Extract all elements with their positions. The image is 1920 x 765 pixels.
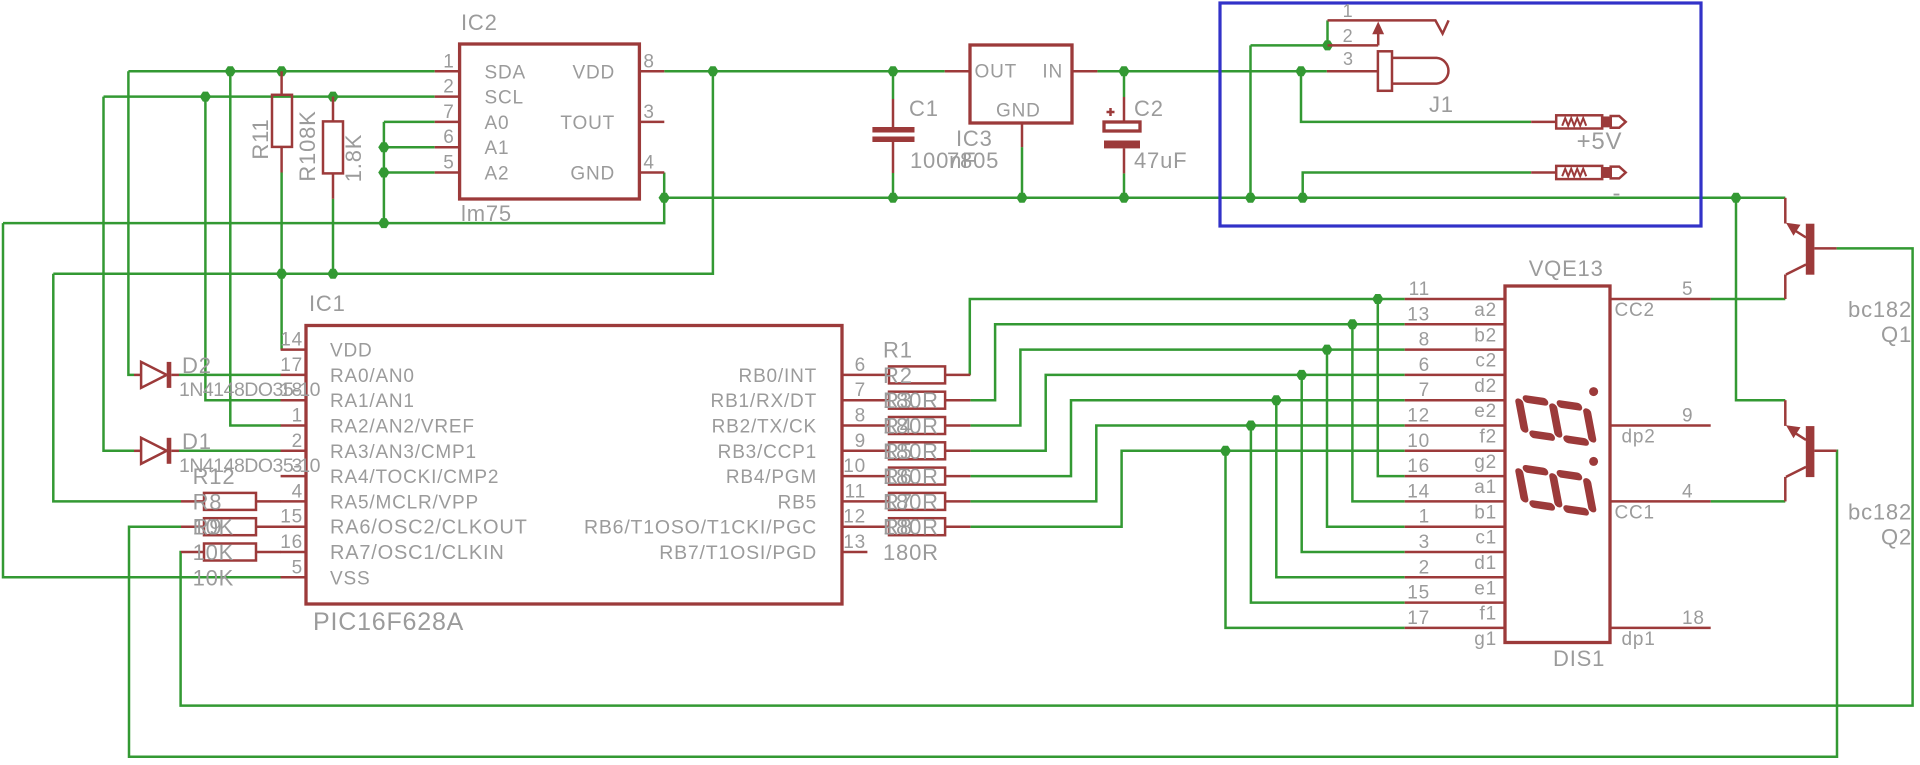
svg-text:RA4/TOCKI/CMP2: RA4/TOCKI/CMP2 bbox=[330, 467, 499, 488]
svg-text:4: 4 bbox=[292, 481, 303, 502]
svg-text:3: 3 bbox=[643, 102, 654, 123]
svg-text:VDD: VDD bbox=[572, 62, 615, 83]
IC1 pin 13 stub bbox=[842, 551, 867, 554]
junction C2 top bbox=[1118, 66, 1129, 76]
IC2 pin 1 stub bbox=[435, 70, 460, 73]
svg-text:IC1: IC1 bbox=[309, 291, 346, 316]
IC1 pin 6 stub bbox=[842, 374, 889, 377]
svg-text:180R: 180R bbox=[883, 414, 939, 439]
svg-text:14: 14 bbox=[280, 330, 303, 351]
IC3 OUT pin stub bbox=[945, 70, 970, 73]
DIS1 pin 1 stub bbox=[1405, 525, 1505, 528]
wire DIS1 CC2 to Q1 collector bbox=[1711, 298, 1786, 301]
wire segment e branch to digit1 pin bbox=[1276, 400, 1404, 577]
svg-text:RA3/AN3/CMP1: RA3/AN3/CMP1 bbox=[330, 442, 477, 463]
connector J1 pin 3 with LED lamp bbox=[1327, 70, 1378, 73]
svg-text:c1: c1 bbox=[1475, 528, 1497, 549]
junction C1 bottom bbox=[887, 193, 898, 203]
junction segment b split bbox=[1347, 319, 1358, 329]
svg-text:d2: d2 bbox=[1474, 376, 1497, 397]
svg-text:2: 2 bbox=[1343, 26, 1354, 46]
svg-text:180R: 180R bbox=[883, 439, 939, 464]
svg-text:bc182: bc182 bbox=[1848, 500, 1912, 525]
svg-text:3: 3 bbox=[1343, 49, 1354, 69]
svg-text:b2: b2 bbox=[1474, 325, 1497, 346]
svg-text:PIC16F628A: PIC16F628A bbox=[313, 608, 464, 636]
diode D2 1N4148 bbox=[134, 374, 141, 377]
wire net SDA down to D2 anode bbox=[128, 71, 134, 375]
svg-text:a2: a2 bbox=[1474, 300, 1497, 321]
wire net SCL down to D1 anode bbox=[104, 97, 135, 451]
svg-text:11: 11 bbox=[1409, 279, 1430, 300]
wire segment f branch to digit1 pin bbox=[1251, 426, 1405, 603]
svg-text:A0: A0 bbox=[485, 113, 510, 134]
svg-text:R12: R12 bbox=[193, 464, 236, 489]
diode D1 1N4148 bbox=[134, 450, 141, 453]
wire segment c net from R4 to DIS1 bbox=[970, 350, 1404, 426]
svg-text:SDA: SDA bbox=[485, 62, 526, 83]
svg-text:+5V: +5V bbox=[1577, 128, 1623, 155]
junction segment a split bbox=[1372, 294, 1383, 304]
svg-text:1: 1 bbox=[1343, 1, 1354, 21]
svg-text:f1: f1 bbox=[1480, 604, 1497, 625]
svg-text:R108K: R108K bbox=[295, 110, 320, 181]
wire GND rail to Q1 emitter bbox=[664, 197, 1785, 200]
svg-text:e1: e1 bbox=[1474, 578, 1497, 599]
junction SCL/R10 bbox=[327, 92, 338, 102]
svg-text:d1: d1 bbox=[1474, 553, 1497, 574]
jack X1 +5V bbox=[1531, 115, 1626, 128]
resistor R8 180R bbox=[889, 518, 945, 535]
resistor R3 180R bbox=[889, 392, 945, 409]
svg-text:17: 17 bbox=[1407, 608, 1430, 629]
junction jack X2 to rail bbox=[1297, 193, 1308, 203]
junction VDD to IC1 bbox=[276, 269, 287, 279]
svg-text:c2: c2 bbox=[1475, 351, 1497, 372]
svg-text:180R: 180R bbox=[883, 515, 939, 540]
DIS1 pin 16 stub bbox=[1405, 475, 1505, 478]
svg-text:180R: 180R bbox=[883, 464, 939, 489]
IC1 pin 1 stub bbox=[281, 424, 306, 427]
svg-text:dp2: dp2 bbox=[1622, 427, 1656, 448]
IC1 pin 7 stub bbox=[842, 399, 889, 402]
wire GND from IC2 pin4 down and left bbox=[3, 173, 664, 224]
svg-text:IC2: IC2 bbox=[461, 10, 498, 35]
DIS1 pin 11 stub bbox=[1405, 298, 1505, 301]
svg-text:1: 1 bbox=[443, 51, 454, 72]
IC2 pin 4 stub bbox=[639, 171, 664, 174]
svg-text:RA0/AN0: RA0/AN0 bbox=[330, 366, 415, 387]
DIS1 pin 5 stub bbox=[1610, 298, 1711, 301]
wire +5V to jack X1 bbox=[1301, 71, 1531, 122]
svg-text:C2: C2 bbox=[1134, 96, 1164, 121]
IC2 pin 5 stub bbox=[435, 171, 460, 174]
connector J1 pin 2 with switch arrow bbox=[1328, 44, 1379, 47]
wire segment e net from R6 to DIS1 bbox=[970, 400, 1404, 476]
svg-text:g1: g1 bbox=[1474, 629, 1497, 650]
wire C1 bottom bbox=[892, 173, 895, 198]
IC1 pin 10 stub bbox=[842, 475, 889, 478]
svg-text:lm75: lm75 bbox=[461, 201, 512, 226]
wire VDD from IC2 pin8 to IC3 OUT bbox=[664, 70, 944, 73]
svg-text:R8: R8 bbox=[193, 489, 223, 514]
svg-text:-: - bbox=[1613, 180, 1622, 207]
wire segment a net from R2 to DIS1 bbox=[970, 299, 1405, 375]
svg-text:RA5/MCLR/VPP: RA5/MCLR/VPP bbox=[330, 492, 479, 513]
svg-text:4: 4 bbox=[643, 153, 654, 174]
microcontroller IC1 PIC16F628A body bbox=[306, 326, 842, 605]
svg-text:11: 11 bbox=[845, 481, 866, 502]
svg-text:C1: C1 bbox=[909, 96, 939, 121]
svg-text:f2: f2 bbox=[1480, 427, 1497, 448]
IC2 pin 3 stub bbox=[639, 121, 664, 124]
resistor 10K row 2 bbox=[181, 525, 204, 528]
wire DIS1 CC1 to Q2 collector bbox=[1711, 500, 1786, 503]
svg-text:1N4148DO35-10: 1N4148DO35-10 bbox=[179, 379, 321, 401]
capacitor C2 polarized bbox=[1123, 97, 1126, 122]
svg-text:10K: 10K bbox=[193, 540, 235, 565]
svg-text:3: 3 bbox=[1419, 532, 1430, 553]
junction segment f split bbox=[1245, 421, 1256, 431]
wire R11 bottom to VDD line to IC1 VDD bbox=[280, 173, 283, 350]
connector J1 pin 1 with switch contact bbox=[1328, 20, 1449, 33]
IC2 pin 8 stub bbox=[639, 70, 664, 73]
wire J1 pin2 left bbox=[1251, 44, 1328, 47]
wire VDD from IC3 IN to J1 pin3 bbox=[1097, 70, 1326, 73]
svg-text:8: 8 bbox=[643, 51, 654, 72]
junction segment g split bbox=[1220, 446, 1231, 456]
junction segment c split bbox=[1321, 345, 1332, 355]
DIS1 pin 9 stub bbox=[1610, 424, 1711, 427]
wire IC2 A0 bbox=[384, 121, 435, 124]
svg-text:OUT: OUT bbox=[975, 62, 1018, 83]
IC1 pin 18 stub bbox=[281, 399, 306, 402]
wire GND rail down to Q2 emitter bbox=[1736, 198, 1785, 400]
svg-text:7805: 7805 bbox=[947, 148, 999, 173]
resistor R6 180R bbox=[889, 468, 945, 485]
DIS1 pin 17 stub bbox=[1405, 627, 1505, 630]
IC2 pin 6 stub bbox=[435, 146, 460, 149]
jack X2 minus bbox=[1531, 166, 1626, 179]
wire segment d net from R5 to DIS1 bbox=[970, 375, 1404, 451]
wire segment d branch to digit1 pin bbox=[1302, 375, 1405, 552]
svg-text:CC2: CC2 bbox=[1615, 300, 1655, 321]
svg-text:RB6/T1OSO/T1CKI/PGC: RB6/T1OSO/T1CKI/PGC bbox=[584, 517, 817, 539]
svg-text:15: 15 bbox=[280, 507, 303, 528]
DIS1 pin 14 stub bbox=[1405, 500, 1505, 503]
svg-text:18: 18 bbox=[1682, 608, 1705, 629]
svg-text:47uF: 47uF bbox=[1134, 148, 1187, 173]
svg-text:10: 10 bbox=[1407, 431, 1430, 452]
resistor R2 180R bbox=[889, 366, 945, 383]
DIS1 pin 4 stub bbox=[1610, 500, 1711, 503]
regulator IC3 7805 body bbox=[970, 45, 1072, 123]
svg-text:17: 17 bbox=[280, 355, 303, 376]
wire segment g branch to digit1 pin bbox=[1226, 451, 1405, 628]
DIS1 pin 12 stub bbox=[1405, 424, 1505, 427]
svg-text:IN: IN bbox=[1042, 62, 1063, 83]
display DIS1 VQE13 body bbox=[1505, 286, 1610, 643]
svg-text:180R: 180R bbox=[883, 540, 939, 565]
svg-text:VDD: VDD bbox=[330, 341, 373, 362]
svg-text:RA1/AN1: RA1/AN1 bbox=[330, 391, 415, 412]
svg-text:6: 6 bbox=[1419, 355, 1430, 376]
junction C2 bottom bbox=[1118, 193, 1129, 203]
wire segment f net from R7 to DIS1 bbox=[970, 426, 1404, 502]
IC2 pin 7 stub bbox=[435, 121, 460, 124]
svg-text:7: 7 bbox=[855, 380, 866, 401]
junction A-pins to GND line bbox=[378, 218, 389, 228]
svg-text:7: 7 bbox=[1419, 380, 1430, 401]
frame J1 module (blue) bbox=[1220, 3, 1701, 226]
svg-text:2: 2 bbox=[443, 77, 454, 98]
junction segment e split bbox=[1271, 395, 1282, 405]
wire VDD down to R8 / IC1 RA5 bbox=[53, 274, 181, 502]
DIS1 pin 7 stub bbox=[1405, 399, 1505, 402]
wire D2 cathode to IC1 RA0 bbox=[179, 374, 281, 377]
junction SDA/RA2 bbox=[225, 66, 236, 76]
resistor R10 1.8K bbox=[332, 97, 335, 122]
svg-text:1: 1 bbox=[292, 406, 303, 427]
svg-text:VQE13: VQE13 bbox=[1529, 256, 1604, 281]
svg-text:RB1/RX/DT: RB1/RX/DT bbox=[711, 391, 817, 412]
wire 1.8K bottom to VDD line bbox=[332, 199, 335, 274]
svg-text:16: 16 bbox=[1407, 456, 1430, 477]
digit 1 of DIS1 (seven-segment 8 with dp) bbox=[1519, 398, 1594, 443]
resistor R5 180R bbox=[889, 442, 945, 459]
IC1 pin 15 stub bbox=[281, 525, 306, 528]
wire J1 pin1 to pin2 link bbox=[1326, 20, 1329, 45]
svg-text:RB0/INT: RB0/INT bbox=[739, 366, 817, 387]
svg-text:J1: J1 bbox=[1429, 92, 1454, 117]
junction J1 pin3 bbox=[1295, 66, 1306, 76]
junction IC3 GND bbox=[1016, 193, 1027, 203]
junction SCL/RA1 bbox=[200, 92, 211, 102]
wire GND to jack X2 bbox=[1303, 173, 1532, 198]
svg-text:g2: g2 bbox=[1474, 452, 1497, 473]
resistor R11 bbox=[280, 71, 283, 95]
svg-text:10: 10 bbox=[843, 456, 866, 477]
svg-text:10K: 10K bbox=[193, 565, 235, 590]
DIS1 pin 2 stub bbox=[1405, 576, 1505, 579]
wire J1 pin2 down to GND rail bbox=[1249, 45, 1252, 197]
svg-text:R1: R1 bbox=[883, 338, 913, 363]
wire A0-A1-A2 tie down to GND line bbox=[383, 122, 386, 223]
svg-text:Q2: Q2 bbox=[1881, 525, 1912, 550]
svg-text:9: 9 bbox=[1682, 406, 1693, 427]
DIS1 pin 10 stub bbox=[1405, 450, 1505, 453]
svg-text:R2: R2 bbox=[883, 363, 913, 388]
wire segment c branch to digit1 pin bbox=[1327, 350, 1405, 527]
transistor Q2 bc182 bbox=[1785, 400, 1836, 501]
svg-text:8: 8 bbox=[1419, 330, 1430, 351]
digit 2 of DIS1 (seven-segment 8 with dp) bbox=[1519, 468, 1594, 513]
svg-text:D1: D1 bbox=[182, 429, 212, 454]
svg-text:bc182: bc182 bbox=[1848, 297, 1912, 322]
svg-text:6: 6 bbox=[443, 127, 454, 148]
op-amp IC2 lm75 body bbox=[460, 44, 640, 199]
svg-text:DIS1: DIS1 bbox=[1553, 646, 1605, 671]
svg-text:15: 15 bbox=[1407, 583, 1430, 604]
svg-text:GND: GND bbox=[570, 164, 615, 185]
junction Q2 emitter tap bbox=[1730, 193, 1741, 203]
junction A1 bbox=[378, 142, 389, 152]
wire IC2 A2 bbox=[384, 171, 435, 174]
svg-text:RB7/T1OSI/PGD: RB7/T1OSI/PGD bbox=[659, 542, 817, 564]
svg-text:SCL: SCL bbox=[485, 88, 524, 109]
svg-text:5: 5 bbox=[292, 557, 303, 578]
svg-text:e2: e2 bbox=[1474, 401, 1497, 422]
svg-text:9: 9 bbox=[855, 431, 866, 452]
svg-text:R11: R11 bbox=[248, 118, 273, 159]
junction C1 top bbox=[887, 66, 898, 76]
wire segment g net from R8 to DIS1 bbox=[970, 451, 1404, 527]
svg-text:RB3/CCP1: RB3/CCP1 bbox=[718, 442, 817, 463]
svg-text:10K: 10K bbox=[193, 515, 235, 540]
IC3 IN pin stub bbox=[1072, 70, 1097, 73]
svg-text:RB4/PGM: RB4/PGM bbox=[726, 467, 817, 488]
IC1 pin 5 stub bbox=[281, 576, 306, 579]
svg-text:GND: GND bbox=[996, 101, 1041, 122]
svg-text:6: 6 bbox=[855, 355, 866, 376]
wire segment b branch to digit1 pin bbox=[1352, 324, 1404, 501]
IC1 pin 12 stub bbox=[842, 525, 889, 528]
C2 plus sign bbox=[1107, 111, 1115, 114]
svg-text:5: 5 bbox=[1682, 279, 1693, 300]
wire net SDA horizontal bbox=[128, 70, 434, 73]
DIS1 pin 15 stub bbox=[1405, 601, 1505, 604]
IC3 GND pin stub bbox=[1021, 123, 1024, 147]
IC1 pin 11 stub bbox=[842, 500, 889, 503]
IC1 pin 4 stub bbox=[281, 500, 306, 503]
wire segment b net from R3 to DIS1 bbox=[970, 324, 1404, 400]
IC1 pin 8 stub bbox=[842, 424, 889, 427]
svg-text:a1: a1 bbox=[1474, 477, 1497, 498]
junction segment d split bbox=[1296, 370, 1307, 380]
svg-text:RB2/TX/CK: RB2/TX/CK bbox=[712, 417, 817, 438]
svg-text:RA2/AN2/VREF: RA2/AN2/VREF bbox=[330, 417, 475, 438]
resistor R7 180R bbox=[889, 493, 945, 510]
svg-text:RA6/OSC2/CLKOUT: RA6/OSC2/CLKOUT bbox=[330, 517, 528, 539]
wire D1 cathode to IC1 RA3 bbox=[179, 450, 281, 453]
svg-text:13: 13 bbox=[843, 532, 866, 553]
svg-text:16: 16 bbox=[280, 532, 303, 553]
svg-text:7: 7 bbox=[443, 102, 454, 123]
wire GND left edge down to IC1 VSS bbox=[3, 223, 281, 577]
svg-text:RB5: RB5 bbox=[778, 492, 817, 513]
capacitor C1 bbox=[892, 99, 895, 127]
junction 1.8K to VDD bbox=[327, 269, 338, 279]
svg-text:2: 2 bbox=[1419, 557, 1430, 578]
junction J1 sw to rail bbox=[1245, 193, 1256, 203]
svg-text:13: 13 bbox=[1407, 304, 1430, 325]
IC1 pin 2 stub bbox=[281, 450, 306, 453]
IC1 pin 9 stub bbox=[842, 450, 889, 453]
wire IC3 GND down bbox=[1021, 147, 1024, 198]
wire net SCL branch to IC1 RA1 bbox=[205, 97, 281, 401]
svg-text:1: 1 bbox=[1419, 507, 1430, 528]
svg-text:2: 2 bbox=[292, 431, 303, 452]
DIS1 pin 6 stub bbox=[1405, 374, 1505, 377]
DIS1 pin 3 stub bbox=[1405, 551, 1505, 554]
resistor 10K row 1 bbox=[181, 500, 204, 503]
svg-text:4: 4 bbox=[1682, 481, 1693, 502]
wire net SDA branch to IC1 RA2 bbox=[230, 71, 281, 425]
junction A2 bbox=[378, 168, 389, 178]
transistor Q1 bc182 bbox=[1785, 198, 1836, 299]
DIS1 pin 8 stub bbox=[1405, 348, 1505, 351]
svg-text:1.8K: 1.8K bbox=[341, 134, 366, 182]
IC1 pin 16 stub bbox=[281, 551, 306, 554]
svg-text:5: 5 bbox=[443, 153, 454, 174]
wire Q1 base to IC1 RA7 long loop bbox=[181, 248, 1913, 705]
svg-text:RA7/OSC1/CLKIN: RA7/OSC1/CLKIN bbox=[330, 542, 505, 564]
wire Q2 base to IC1 RA6 long loop bbox=[129, 451, 1837, 757]
svg-text:b1: b1 bbox=[1474, 502, 1497, 523]
resistor 10K row 3 bbox=[181, 551, 204, 554]
svg-text:Q1: Q1 bbox=[1881, 322, 1912, 347]
svg-text:A1: A1 bbox=[485, 138, 510, 159]
wire segment a branch to digit1 pin bbox=[1378, 299, 1405, 476]
junction SDA/R11 bbox=[276, 66, 287, 76]
DIS1 pin 18 stub bbox=[1610, 627, 1711, 630]
svg-text:CC1: CC1 bbox=[1615, 502, 1655, 523]
IC1 pin 3 stub bbox=[281, 475, 306, 478]
svg-text:A2: A2 bbox=[485, 164, 510, 185]
wire C2 bottom bbox=[1123, 173, 1126, 197]
DIS1 pin 13 stub bbox=[1405, 323, 1505, 326]
wire net SCL horizontal bbox=[104, 95, 435, 98]
svg-text:TOUT: TOUT bbox=[560, 113, 615, 134]
svg-text:VSS: VSS bbox=[330, 568, 370, 589]
IC1 pin 14 stub bbox=[281, 348, 306, 351]
svg-text:D2: D2 bbox=[182, 353, 212, 378]
IC2 pin 2 stub bbox=[435, 95, 460, 98]
svg-text:180R: 180R bbox=[883, 489, 939, 514]
wire C1 top bbox=[892, 71, 895, 99]
svg-text:dp1: dp1 bbox=[1622, 629, 1656, 650]
IC1 pin 17 stub bbox=[281, 374, 306, 377]
svg-text:180R: 180R bbox=[883, 388, 939, 413]
wire C2 top bbox=[1123, 71, 1126, 97]
svg-text:14: 14 bbox=[1407, 481, 1430, 502]
junction GND rail left bbox=[659, 193, 670, 203]
wire net VDD distribution horizontal bbox=[53, 71, 713, 273]
junction J1 pin2 bbox=[1322, 40, 1333, 50]
svg-text:12: 12 bbox=[843, 507, 866, 528]
resistor R4 180R bbox=[889, 417, 945, 434]
svg-text:8: 8 bbox=[855, 406, 866, 427]
wire IC2 A1 bbox=[384, 146, 435, 149]
junction VDD riser bbox=[707, 66, 718, 76]
svg-text:12: 12 bbox=[1407, 406, 1430, 427]
